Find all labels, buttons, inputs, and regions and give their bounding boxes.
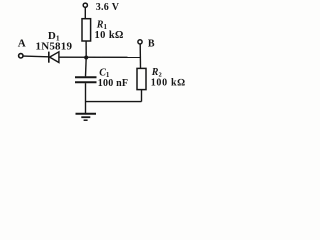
diode D1 cathode bar [48,52,50,63]
svg-text:3.6 V: 3.6 V [96,2,120,13]
svg-text:B: B [148,39,155,50]
resistor R1 [82,19,91,41]
ground [76,114,97,121]
node B [138,40,142,44]
svg-text:A: A [18,38,26,50]
svg-text:100 kΩ: 100 kΩ [151,77,186,88]
svg-text:1N5819: 1N5819 [36,40,73,52]
capacitor C1 bottom plate [75,81,97,83]
svg-text:100 nF: 100 nF [98,78,128,89]
svg-text:10 kΩ: 10 kΩ [95,30,124,41]
capacitor C1 top plate [75,76,97,78]
resistor R2 [137,68,146,89]
wire [84,8,86,19]
wire [85,41,87,58]
wire [59,56,140,58]
wire [139,44,141,68]
supply terminal 3.6 V [83,3,87,7]
wire [85,58,88,77]
wire [86,101,142,103]
wire [23,55,48,58]
diode D1 triangle [50,52,59,63]
wire [85,83,87,113]
junction [84,56,88,60]
wire [141,90,143,102]
